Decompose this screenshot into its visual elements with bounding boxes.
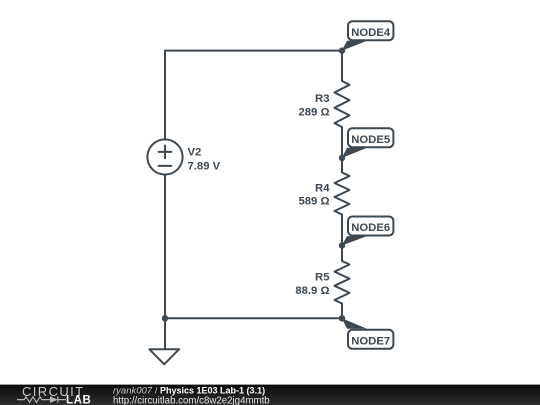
- svg-text:589 Ω: 589 Ω: [298, 196, 329, 208]
- node flag NODE5: [342, 128, 394, 158]
- wire bottom horizontal: [165, 317, 342, 319]
- wire ground lead: [164, 318, 166, 349]
- svg-text:289 Ω: 289 Ω: [298, 107, 329, 119]
- svg-text:NODE7: NODE7: [351, 335, 390, 347]
- svg-text:R5: R5: [315, 271, 329, 283]
- resistor R3: [335, 51, 350, 158]
- svg-text:R3: R3: [315, 93, 329, 105]
- svg-text:http://circuitlab.com/c8w2e2jg: http://circuitlab.com/c8w2e2jg4mmtb: [113, 395, 270, 405]
- svg-text:88.9 Ω: 88.9 Ω: [295, 285, 329, 297]
- wire V2 bottom to ground node: [164, 175, 166, 319]
- svg-text:V2: V2: [188, 146, 202, 158]
- logo diode glyph: [50, 396, 58, 403]
- logo wire and resistor glyph: [17, 396, 66, 402]
- svg-text:NODE5: NODE5: [351, 134, 390, 146]
- svg-text:7.89 V: 7.89 V: [188, 160, 221, 172]
- node B (NODE5 junction dot): [339, 155, 345, 161]
- resistor R4: [335, 158, 350, 246]
- node flag NODE6: [342, 217, 394, 246]
- svg-text:R4: R4: [315, 183, 330, 195]
- voltage source V2: [147, 139, 182, 174]
- wire V2 top lead: [164, 51, 166, 140]
- node C (NODE6 junction dot): [339, 242, 345, 248]
- ground: [149, 349, 179, 364]
- node flag NODE7: [342, 318, 394, 349]
- svg-text:NODE4: NODE4: [351, 27, 391, 39]
- svg-text:NODE6: NODE6: [351, 222, 390, 234]
- node D (NODE7 junction dot): [339, 315, 345, 321]
- node flag NODE4: [342, 21, 394, 51]
- wire top horizontal: [165, 50, 342, 52]
- footer bar: [0, 385, 540, 405]
- node A (NODE4 junction dot): [339, 47, 345, 53]
- svg-text:LAB: LAB: [66, 395, 91, 405]
- resistor R5: [335, 246, 350, 319]
- node E (ground junction dot): [162, 315, 168, 321]
